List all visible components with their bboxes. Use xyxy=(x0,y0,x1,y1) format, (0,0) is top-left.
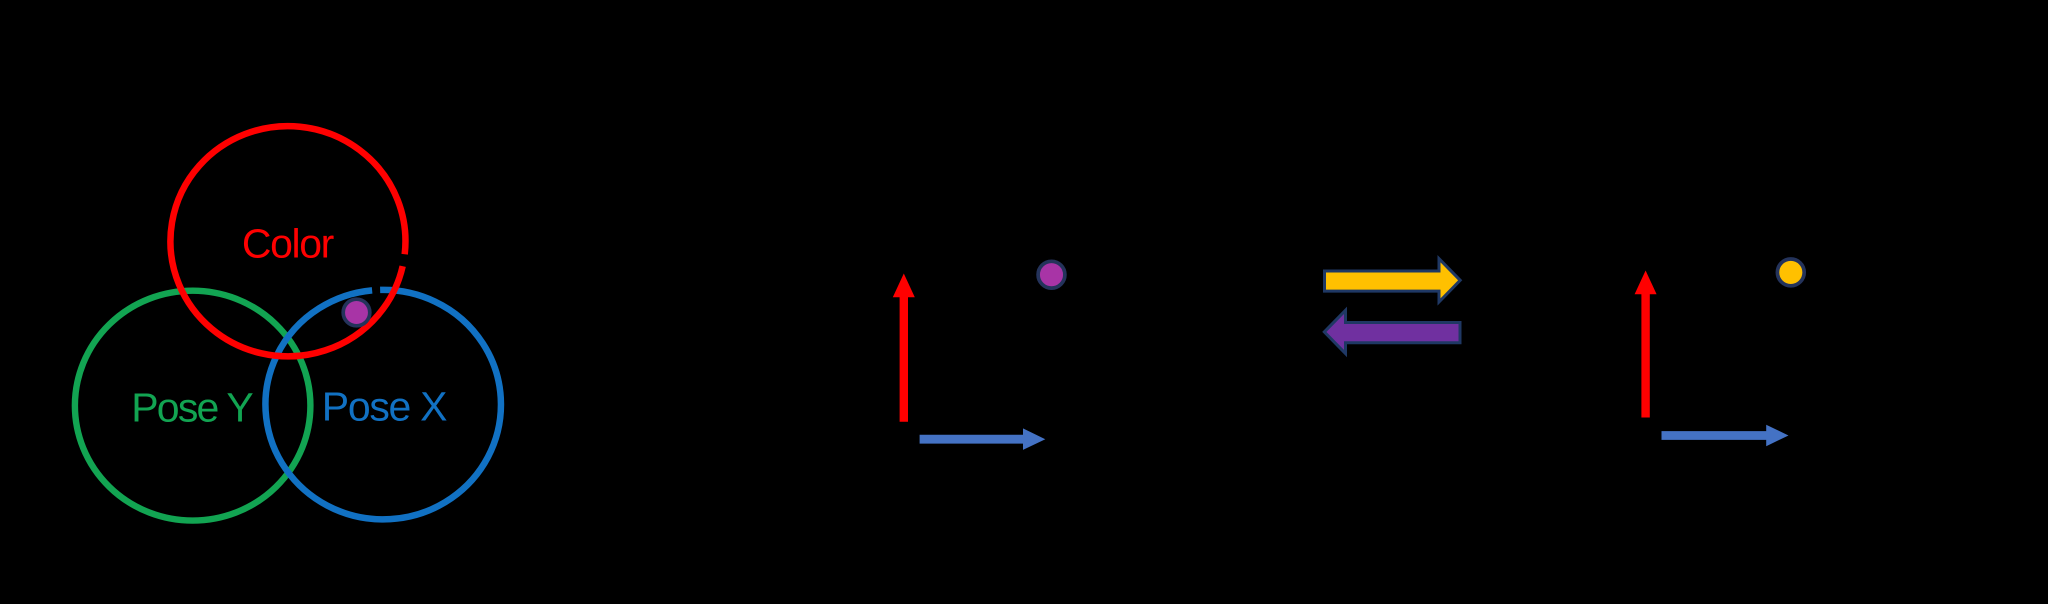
circle Color (red, open arc with small gap at lower right) xyxy=(170,126,405,356)
svg-text:Pose X: Pose X xyxy=(322,384,447,430)
svg-text:Pose Y: Pose Y xyxy=(131,384,253,430)
axis frame 1: blue X arrow xyxy=(920,428,1046,450)
axis frame 2: blue X arrow xyxy=(1662,425,1789,447)
svg-text:Color: Color xyxy=(242,221,334,267)
axis frame 1: red Y arrow xyxy=(893,274,915,422)
axis frame 2: red Y arrow xyxy=(1635,271,1657,418)
dot yellow (frame 2) xyxy=(1777,259,1804,286)
circle Pose X (blue, open arc with small gap at top) xyxy=(265,290,500,519)
block arrow purple (left) xyxy=(1324,310,1460,353)
dot purple (venn) xyxy=(343,299,370,326)
block arrow yellow (right) xyxy=(1325,259,1461,302)
dot purple (frame 1) xyxy=(1038,261,1065,288)
circle Pose Y (green) xyxy=(75,291,311,521)
